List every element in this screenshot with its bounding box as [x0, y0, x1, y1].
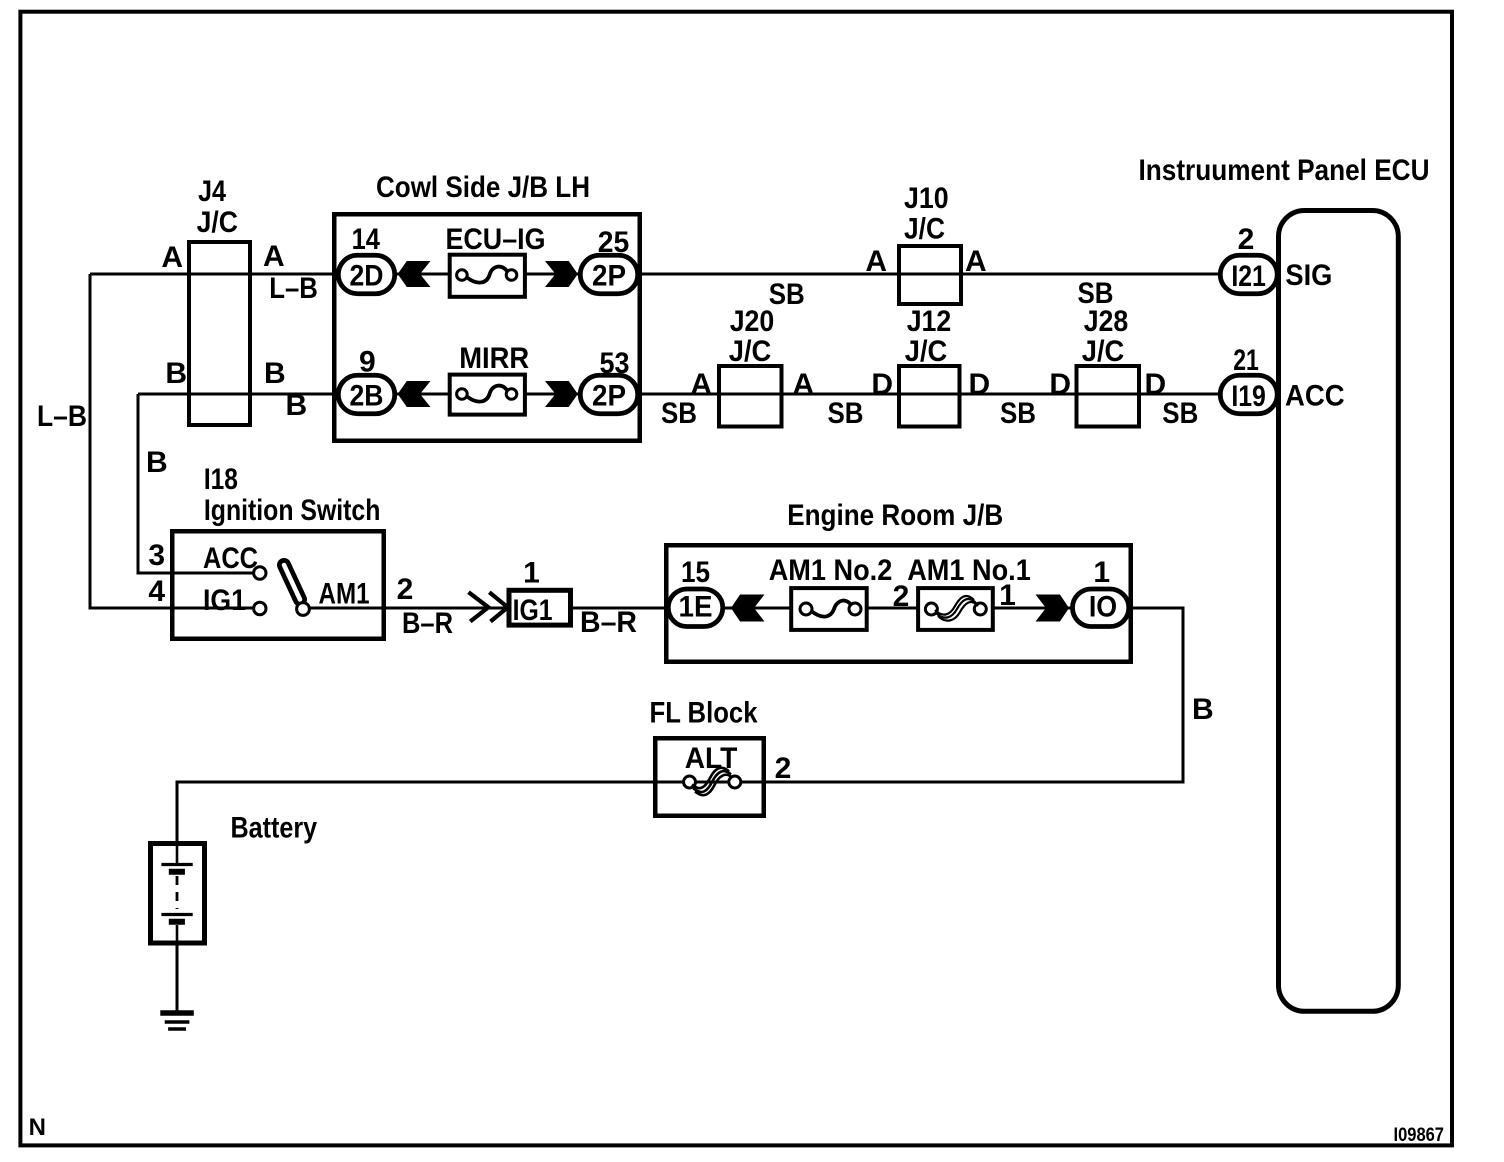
svg-text:Engine Room J/B: Engine Room J/B [787, 499, 1003, 532]
svg-text:I21: I21 [1231, 260, 1266, 293]
svg-text:2: 2 [775, 752, 792, 785]
svg-text:FL Block: FL Block [650, 697, 758, 730]
svg-text:L–B: L–B [269, 272, 318, 305]
svg-text:AM1: AM1 [319, 578, 370, 611]
svg-text:J/C: J/C [197, 206, 238, 239]
svg-text:Instruument Panel ECU: Instruument Panel ECU [1139, 154, 1430, 187]
svg-text:21: 21 [1233, 344, 1259, 377]
svg-text:J/C: J/C [729, 335, 772, 368]
svg-text:4: 4 [148, 575, 165, 608]
svg-text:Ignition Switch: Ignition Switch [204, 494, 381, 527]
svg-text:J10: J10 [904, 182, 949, 215]
svg-text:SB: SB [661, 397, 697, 430]
svg-text:1: 1 [523, 557, 540, 590]
svg-text:IG1: IG1 [513, 594, 553, 627]
svg-text:J/C: J/C [1082, 335, 1125, 368]
svg-text:B: B [1192, 693, 1214, 726]
svg-text:D: D [871, 368, 893, 401]
svg-text:1: 1 [999, 579, 1016, 612]
svg-text:IG1: IG1 [203, 584, 246, 617]
svg-text:B: B [165, 357, 187, 390]
svg-text:Battery: Battery [231, 812, 318, 845]
svg-text:J28: J28 [1084, 305, 1129, 338]
svg-text:J/C: J/C [905, 335, 948, 368]
svg-text:AM1 No.2: AM1 No.2 [769, 554, 893, 587]
svg-text:A: A [965, 245, 987, 278]
svg-text:L–B: L–B [37, 400, 87, 433]
svg-text:2: 2 [397, 573, 414, 606]
svg-text:3: 3 [148, 539, 165, 572]
svg-text:1E: 1E [679, 591, 713, 624]
svg-text:2B: 2B [350, 380, 384, 413]
svg-text:2: 2 [1238, 223, 1255, 256]
svg-text:2D: 2D [350, 260, 384, 293]
svg-text:ALT: ALT [685, 742, 738, 775]
svg-text:B: B [146, 446, 168, 479]
svg-text:A: A [793, 368, 815, 401]
svg-text:ACC: ACC [203, 542, 258, 575]
svg-text:2P: 2P [592, 380, 626, 413]
svg-text:J4: J4 [198, 175, 226, 208]
svg-text:SB: SB [1162, 397, 1198, 430]
svg-text:ACC: ACC [1285, 380, 1345, 413]
svg-text:B: B [286, 389, 308, 422]
svg-text:A: A [865, 245, 887, 278]
svg-text:14: 14 [352, 223, 381, 256]
svg-text:B–R: B–R [402, 607, 453, 640]
svg-text:J/C: J/C [904, 213, 945, 246]
svg-text:D: D [1049, 368, 1071, 401]
svg-text:15: 15 [681, 556, 710, 589]
svg-text:2P: 2P [592, 260, 626, 293]
svg-text:SIG: SIG [1285, 259, 1332, 292]
svg-text:25: 25 [598, 226, 630, 259]
svg-text:IO: IO [1089, 591, 1117, 624]
svg-text:53: 53 [600, 347, 630, 380]
svg-text:N: N [29, 1114, 46, 1141]
svg-text:ECU–IG: ECU–IG [446, 223, 546, 256]
svg-text:9: 9 [359, 346, 376, 379]
svg-text:Cowl Side J/B LH: Cowl Side J/B LH [376, 171, 590, 204]
svg-text:A: A [161, 241, 183, 274]
svg-text:SB: SB [828, 397, 864, 430]
svg-text:J12: J12 [907, 305, 952, 338]
svg-text:D: D [969, 368, 991, 401]
svg-text:A: A [263, 240, 285, 273]
svg-text:I19: I19 [1231, 380, 1266, 413]
svg-text:J20: J20 [730, 305, 775, 338]
svg-text:I18: I18 [204, 463, 238, 496]
svg-text:MIRR: MIRR [459, 342, 529, 375]
svg-text:SB: SB [1000, 397, 1036, 430]
svg-text:B: B [264, 357, 286, 390]
svg-text:B–R: B–R [580, 606, 637, 639]
svg-text:1: 1 [1093, 556, 1110, 589]
svg-text:I09867: I09867 [1394, 1125, 1445, 1146]
